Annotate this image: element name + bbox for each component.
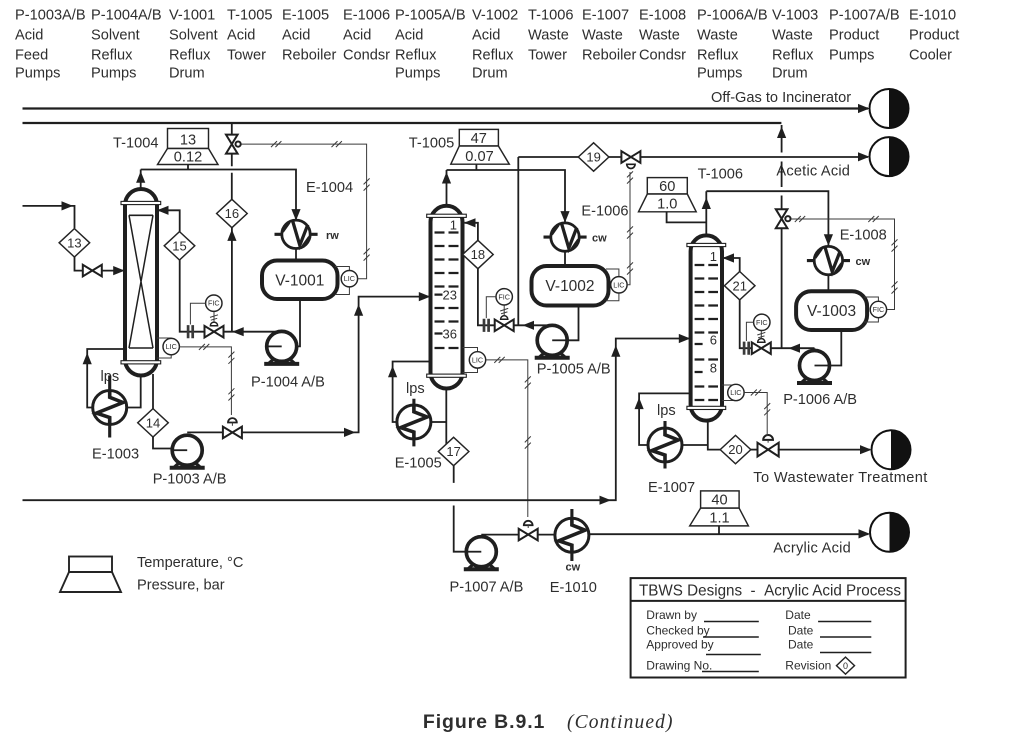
svg-text:V-1001: V-1001	[275, 272, 324, 289]
svg-text:Drum: Drum	[772, 66, 808, 82]
wastewater control valve (T-1006 LIC)	[751, 449, 759, 451]
svg-text:Waste: Waste	[772, 28, 813, 44]
wire: bottoms to diamond 14	[152, 374, 154, 409]
svg-text:LIC: LIC	[344, 274, 355, 283]
instrument FIC (T-1005 reflux)	[496, 289, 512, 305]
svg-text:Reflux: Reflux	[472, 48, 514, 64]
wire: E-1005 vapor return to column	[393, 362, 431, 423]
T/P flag T-1005: 47 / 0.07	[451, 129, 510, 164]
stream flag diamond 17	[438, 437, 469, 465]
reflux/distillate line from P-1004	[159, 210, 282, 331]
wire: valve down to diamond 16 (gap at overhead crossing)	[231, 154, 233, 200]
svg-text:To Wastewater Treatment: To Wastewater Treatment	[753, 470, 927, 486]
bottoms control valve (T-1004 LIC)	[223, 427, 242, 439]
manual valve on feed	[83, 265, 102, 277]
svg-text:Checked by: Checked by	[646, 624, 709, 638]
svg-text:T-1005: T-1005	[409, 136, 454, 152]
svg-text:cw: cw	[592, 233, 607, 245]
wire: V-1003 to P-1006	[829, 330, 842, 366]
reflux drum V-1003	[796, 291, 867, 330]
signal: T-1006 LIC to wastewater valve	[744, 393, 767, 437]
svg-text:Reflux: Reflux	[395, 48, 437, 64]
pump P-1003 A/B	[170, 435, 205, 468]
T-1005 overhead vapor line to E-1006	[447, 170, 566, 223]
T/P flag T-1006: 60 / 1.0	[639, 178, 697, 212]
off-gas off-page connector	[870, 89, 909, 128]
svg-text:Waste: Waste	[528, 28, 569, 44]
svg-text:E-1003: E-1003	[92, 446, 139, 462]
svg-text:Drum: Drum	[472, 66, 508, 82]
acetic acid product line	[518, 156, 868, 158]
stream flag diamond 18	[463, 240, 494, 268]
LIC bridle on V-1002	[606, 269, 619, 301]
svg-text:P-1004 A/B: P-1004 A/B	[251, 375, 325, 391]
pump discharge/reflux line T-1006	[724, 258, 815, 348]
svg-text:LIC: LIC	[730, 388, 741, 397]
wire: reflux line up to diamond 16	[231, 228, 233, 332]
svg-text:1: 1	[450, 218, 457, 233]
instrument LIC (T-1004)	[163, 338, 179, 354]
svg-text:Drum: Drum	[169, 66, 205, 82]
svg-text:Pumps: Pumps	[15, 66, 60, 82]
svg-text:E-1010: E-1010	[909, 8, 956, 24]
svg-text:Acid: Acid	[15, 28, 43, 44]
svg-text:rw: rw	[326, 230, 339, 242]
instrument FIC (T-1006 reflux)	[754, 314, 770, 330]
stream flag diamond 19	[578, 143, 609, 171]
product control valve (T-1005 LIC)	[519, 529, 538, 541]
svg-text:V-1002: V-1002	[472, 8, 518, 24]
orifice FE on reflux line	[188, 325, 193, 338]
wire: P-1007 discharge	[481, 534, 518, 536]
wire E-1006 to V-1002	[564, 251, 566, 266]
wire: header line 2 down to valve	[231, 123, 233, 135]
svg-text:Temperature, °C: Temperature, °C	[137, 555, 243, 571]
wire: diamond 13 to feed valve	[75, 257, 83, 271]
svg-text:Reflux: Reflux	[697, 48, 739, 64]
LIC bridle on T-1006	[722, 385, 736, 401]
column T-1004 (packed)	[125, 189, 157, 376]
pump P-1006 A/B	[797, 351, 832, 384]
svg-text:E-1007: E-1007	[648, 480, 695, 496]
svg-text:13: 13	[67, 235, 81, 250]
wire: T-1005 bottoms to diamond 17	[445, 389, 447, 445]
orifice FE on T-1006 reflux	[744, 342, 749, 355]
LIC bridle on T-1004	[157, 338, 171, 358]
svg-text:1: 1	[710, 249, 717, 264]
svg-text:0.12: 0.12	[174, 150, 202, 166]
svg-text:Condsr: Condsr	[639, 48, 686, 64]
svg-text:Drawn by: Drawn by	[646, 608, 697, 622]
product cooler E-1010	[555, 518, 589, 552]
svg-text:Acid: Acid	[395, 28, 423, 44]
svg-text:P-1003 A/B: P-1003 A/B	[153, 471, 227, 487]
svg-text:0: 0	[843, 661, 848, 671]
stream flag diamond 14	[138, 409, 169, 437]
svg-text:P-1004A/B: P-1004A/B	[91, 8, 162, 24]
feed line stream 13 from left	[23, 206, 75, 229]
svg-text:V-1002: V-1002	[545, 278, 594, 295]
svg-text:(Continued): (Continued)	[567, 712, 673, 733]
svg-text:Acetic Acid: Acetic Acid	[776, 164, 850, 180]
svg-text:Pumps: Pumps	[829, 48, 874, 64]
trays of T-1005	[435, 231, 459, 233]
wire: vent riser to header line 2 (gaps at crossings)	[781, 125, 783, 348]
instrument LIC (V-1002)	[611, 277, 627, 293]
svg-text:17: 17	[446, 444, 460, 459]
trays of T-1006	[695, 264, 718, 266]
svg-text:Date: Date	[788, 638, 814, 652]
svg-text:V-1003: V-1003	[807, 303, 856, 320]
svg-text:18: 18	[471, 247, 485, 262]
svg-text:P-1006 A/B: P-1006 A/B	[783, 392, 857, 408]
svg-text:1.1: 1.1	[709, 511, 729, 527]
wire: E-1007 vapor return to column	[639, 393, 691, 445]
svg-text:P-1005A/B: P-1005A/B	[395, 8, 466, 24]
svg-text:Feed: Feed	[15, 48, 48, 64]
svg-text:Waste: Waste	[639, 28, 680, 44]
stream flag diamond 16	[217, 199, 248, 227]
svg-text:E-1008: E-1008	[840, 228, 887, 244]
T/P flag: 40 / 1.1	[690, 491, 749, 526]
wire: column bottoms to E-1003	[127, 374, 141, 408]
svg-text:Waste: Waste	[697, 28, 738, 44]
svg-text:Reflux: Reflux	[169, 48, 211, 64]
reflux control valve (FIC) T-1006	[752, 342, 771, 354]
svg-text:TBWS Designs - Acrylic Acid: TBWS Designs - Acrylic Acid Process	[639, 583, 901, 600]
svg-text:0.07: 0.07	[465, 149, 493, 165]
LIC bridle on T-1005	[463, 348, 478, 373]
FIC bridle on V-1003	[864, 297, 878, 322]
svg-text:20: 20	[728, 442, 742, 457]
stream flag diamond 21	[724, 272, 755, 300]
svg-text:Acid: Acid	[472, 28, 500, 44]
svg-text:Reflux: Reflux	[91, 48, 133, 64]
svg-text:V-1001: V-1001	[169, 8, 215, 24]
svg-text:6: 6	[710, 333, 717, 348]
title block	[631, 578, 906, 677]
svg-text:E-1006: E-1006	[581, 204, 628, 220]
svg-text:T-1004: T-1004	[113, 136, 158, 152]
instrument LIC (T-1005)	[469, 352, 485, 368]
svg-text:Figure B.9.1: Figure B.9.1	[423, 711, 545, 733]
svg-text:Product: Product	[829, 28, 879, 44]
svg-text:Approved by: Approved by	[646, 638, 713, 652]
svg-text:Solvent: Solvent	[169, 28, 218, 44]
acetic control valve	[621, 151, 640, 163]
svg-text:cw: cw	[856, 256, 871, 268]
reboiler E-1007	[648, 428, 682, 462]
svg-text:FIC: FIC	[498, 292, 510, 301]
svg-text:13: 13	[180, 133, 196, 149]
acetic acid off-page connector	[870, 137, 909, 176]
wire E-1008 to V-1003	[827, 275, 829, 292]
svg-text:FIC: FIC	[873, 305, 885, 314]
svg-text:Product: Product	[909, 28, 959, 44]
pump P-1005 A/B	[535, 325, 570, 358]
reflux line from P-1005	[465, 223, 552, 325]
svg-text:15: 15	[172, 238, 186, 253]
svg-text:47: 47	[471, 131, 487, 147]
svg-text:FIC: FIC	[756, 318, 768, 327]
svg-text:E-1006: E-1006	[343, 8, 390, 24]
svg-text:Pressure, bar: Pressure, bar	[137, 578, 225, 594]
wire: T-1006 bottoms to diamond 20	[708, 421, 721, 450]
svg-text:LIC: LIC	[472, 355, 483, 364]
svg-text:Date: Date	[785, 608, 811, 622]
reflux drum V-1002	[532, 266, 609, 306]
LIC bridle on V-1001	[335, 267, 349, 295]
svg-text:Pumps: Pumps	[697, 66, 742, 82]
svg-text:Condsr: Condsr	[343, 48, 390, 64]
svg-text:Pumps: Pumps	[91, 66, 136, 82]
svg-text:23: 23	[443, 288, 457, 303]
wire: column bottoms to E-1007	[682, 444, 708, 446]
svg-text:Tower: Tower	[227, 48, 266, 64]
svg-text:LIC: LIC	[166, 342, 177, 351]
signal: V-1003 FIC to vent valve	[790, 219, 894, 310]
column T-1005 (trayed)	[431, 206, 463, 389]
acrylic acid off-page connector	[870, 513, 909, 552]
signal: T-1004 LIC to bottoms valve	[179, 347, 231, 415]
wire: E-1003 vapor return to column	[87, 349, 125, 408]
wastewater line to connector	[778, 449, 870, 451]
svg-text:P-1006A/B: P-1006A/B	[697, 8, 768, 24]
svg-text:19: 19	[586, 150, 600, 165]
svg-text:1.0: 1.0	[657, 197, 677, 213]
wire: V-1001 to P-1004	[297, 299, 300, 346]
svg-text:T-1006: T-1006	[528, 8, 573, 24]
svg-text:Reboiler: Reboiler	[582, 48, 636, 64]
svg-text:P-1007A/B: P-1007A/B	[829, 8, 900, 24]
signal: V-1001 LIC to vent valve	[241, 144, 367, 279]
wire: distillate riser to acetic line	[517, 157, 519, 325]
instrument LIC (T-1006)	[728, 384, 744, 400]
legend T/P flag symbol	[60, 557, 121, 593]
reflux drum V-1001	[262, 261, 338, 300]
T-1006 feed line from offpage	[23, 339, 689, 501]
svg-text:FIC: FIC	[208, 299, 220, 308]
svg-text:V-1003: V-1003	[772, 8, 818, 24]
wire: P-1003 discharge to T-1005 feed riser	[187, 431, 223, 433]
recycle header line (net: line 2)	[23, 122, 782, 124]
stream flag diamond 20	[720, 435, 751, 463]
svg-text:T-1005: T-1005	[227, 8, 272, 24]
svg-text:Date: Date	[788, 624, 814, 638]
svg-text:T-1006: T-1006	[698, 166, 743, 182]
instrument FIC (T-1004 reflux)	[206, 295, 222, 311]
svg-text:lps: lps	[657, 403, 676, 419]
svg-text:Reflux: Reflux	[772, 48, 814, 64]
reflux control valve (FIC) T-1004	[205, 326, 224, 338]
svg-text:Acid: Acid	[282, 28, 310, 44]
svg-text:8: 8	[710, 361, 717, 376]
instrument LIC (V-1001)	[341, 271, 357, 287]
svg-text:Acid: Acid	[343, 28, 371, 44]
svg-text:Off-Gas to Incinerator: Off-Gas to Incinerator	[711, 90, 851, 106]
svg-text:16: 16	[225, 206, 239, 221]
condenser E-1006	[551, 223, 579, 251]
svg-text:P-1007 A/B: P-1007 A/B	[450, 580, 524, 596]
svg-text:E-1010: E-1010	[550, 580, 597, 596]
wire E-1004 to V-1001	[295, 248, 297, 260]
wastewater off-page connector	[872, 430, 911, 469]
off-gas header line (net: off-gas)	[23, 107, 869, 109]
svg-text:Pumps: Pumps	[395, 66, 440, 82]
vent control valve (stream 16 to header)	[226, 135, 238, 154]
stream flag diamond 13	[59, 229, 90, 257]
svg-text:cw: cw	[566, 562, 581, 574]
svg-text:Acid: Acid	[227, 28, 255, 44]
svg-text:lps: lps	[406, 381, 425, 397]
reboiler E-1003	[93, 391, 127, 425]
wire: valve to column with arrow	[102, 270, 123, 272]
signal: V-1002 LIC to acetic valve	[627, 172, 630, 285]
svg-text:Waste: Waste	[582, 28, 623, 44]
wire: V-1002 to P-1005	[566, 306, 578, 341]
reboiler E-1005	[397, 405, 431, 439]
svg-text:Drawing No.: Drawing No.	[646, 659, 712, 673]
svg-text:Revision: Revision	[785, 659, 831, 673]
svg-text:LIC: LIC	[613, 280, 624, 289]
svg-text:Tower: Tower	[528, 48, 567, 64]
T-1006 overhead vapor line to E-1008	[706, 191, 828, 246]
equipment summary header text	[15, 8, 959, 82]
column T-1006 (trayed)	[691, 235, 722, 420]
svg-text:Reboiler: Reboiler	[282, 48, 336, 64]
signal: T-1005 LIC to product valve	[486, 360, 528, 517]
acrylic acid product line	[590, 533, 869, 535]
svg-text:14: 14	[146, 415, 160, 430]
svg-text:40: 40	[711, 493, 727, 509]
svg-text:E-1004: E-1004	[306, 180, 353, 196]
svg-text:Acrylic Acid: Acrylic Acid	[773, 541, 851, 557]
wire: diamond 14 to pump P-1003	[153, 437, 172, 449]
svg-text:P-1003A/B: P-1003A/B	[15, 8, 86, 24]
condenser E-1004	[282, 220, 310, 248]
svg-text:P-1005 A/B: P-1005 A/B	[537, 361, 611, 377]
svg-text:36: 36	[443, 327, 457, 342]
wire: diamond 17 down (gap at feed line crossing)	[454, 466, 467, 552]
svg-text:E-1005: E-1005	[395, 455, 442, 471]
revision diamond 0	[837, 657, 855, 674]
pump P-1004 A/B	[264, 331, 299, 364]
svg-text:E-1007: E-1007	[582, 8, 629, 24]
packing X in T-1004	[129, 215, 153, 348]
orifice FE on T-1005 reflux	[484, 319, 489, 332]
svg-text:Cooler: Cooler	[909, 48, 952, 64]
svg-text:E-1008: E-1008	[639, 8, 686, 24]
vent control valve (T-1006 vent)	[776, 209, 788, 228]
instrument FIC (V-1003)	[870, 301, 886, 317]
svg-text:E-1005: E-1005	[282, 8, 329, 24]
condenser E-1008	[814, 246, 842, 274]
pump P-1007 A/B	[464, 537, 499, 570]
svg-text:Solvent: Solvent	[91, 28, 140, 44]
svg-text:60: 60	[659, 179, 675, 195]
T-1004 overhead vapor line to E-1004	[141, 170, 296, 222]
reflux control valve (FIC) T-1005	[495, 320, 514, 332]
stream flag diamond 15	[164, 232, 195, 260]
T/P flag T-1004: 13 / 0.12	[158, 129, 219, 165]
wire: column bottoms to E-1005	[431, 421, 446, 423]
svg-text:21: 21	[732, 278, 746, 293]
